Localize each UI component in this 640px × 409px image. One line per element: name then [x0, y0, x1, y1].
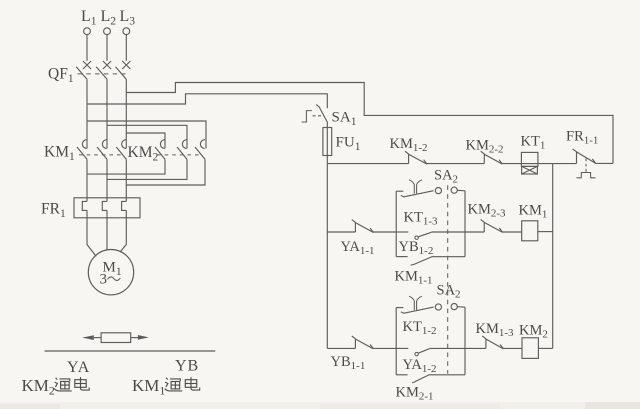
- wire L1 drop to QF1: [86, 35, 88, 61]
- time relay KT1 lower crossed box: [522, 166, 538, 174]
- branch box2 left bus: [395, 308, 397, 375]
- contact KM1-3: [482, 336, 503, 349]
- time relay KT1 coil upper box: [521, 152, 538, 166]
- breaker QF1 pole 3 contact cross: [122, 61, 130, 69]
- contact KT1-3 / YB1-2 in box1: [396, 231, 408, 233]
- switch SA1 operator: [302, 111, 312, 122]
- contact FR1-1 thermal overload: [573, 149, 596, 163]
- branch box1 left bus: [395, 191, 397, 256]
- wire phase3 KM1 to motor: [120, 159, 126, 251]
- wire phase1 vertical QF1 to KM1: [86, 79, 88, 148]
- contact KM2-1 in box2 bottom edge: [396, 374, 407, 376]
- wire phase2 vertical QF1 to KM1: [106, 79, 108, 148]
- switch SA2 pole 1 manual operator: [409, 180, 422, 194]
- wire rung1 through KT1: [523, 163, 577, 165]
- selector SA2 linkage dashed column: [447, 185, 449, 373]
- switch SA2 pole 2 manual operator: [409, 296, 422, 310]
- wire KM2 pole C output to phase3: [126, 159, 205, 185]
- scan artifact bottom band: [0, 402, 640, 409]
- switch SA1 blade: [316, 105, 328, 123]
- contactor KM1 linkage dashes: [79, 154, 125, 156]
- node L1 terminal: [84, 28, 91, 35]
- wire L3 drop to QF1: [125, 35, 127, 61]
- thermal relay FR1 heater 2: [102, 201, 107, 210]
- wire rung2 to KM2-3: [465, 231, 484, 233]
- wire rung3 to KM1-3: [465, 347, 486, 349]
- breaker QF1 pole 2 blade: [96, 67, 107, 79]
- contact KM1-1 in box1 bottom edge: [396, 256, 407, 258]
- node L3 terminal: [123, 28, 130, 35]
- contact KM2-3: [481, 219, 503, 232]
- fuse FU1: [323, 128, 332, 156]
- node L2 terminal: [104, 28, 111, 35]
- contactor KM1 pole 1: [77, 140, 87, 160]
- thermal relay FR1 heater 3: [122, 201, 127, 210]
- coil KM1: [503, 231, 522, 233]
- wire rung1 segment: [427, 163, 484, 165]
- wire phase3 vertical QF1 to KM1: [125, 79, 127, 148]
- breaker QF1 pole 3 blade: [116, 67, 127, 79]
- breaker QF1 pole 2 contact cross: [103, 61, 111, 69]
- motor M1 circle: [88, 250, 133, 295]
- wire rung2 to branch box 1: [373, 231, 396, 233]
- FR1-1 thermal element symbol: [577, 173, 596, 178]
- wire control feed tap from phase1 to SA1: [87, 94, 327, 108]
- wire phase1 feed to KM2 pole C: [87, 121, 206, 148]
- wire control rung 1: [327, 163, 408, 165]
- wire rung3 to branch box2: [373, 347, 396, 349]
- wire KM1 coil to return rail: [538, 231, 553, 233]
- contact KT1-2 / YA1-2 in box2: [396, 347, 408, 349]
- contact KM1-2: [405, 151, 427, 164]
- contact KM2-2: [481, 151, 503, 164]
- wire FR1-1 to right rail: [596, 162, 614, 164]
- contactor KM2 pole C: [195, 140, 205, 160]
- wire left rail: [326, 164, 328, 349]
- thermal relay FR1 heater 1: [82, 201, 87, 210]
- svg-text:YA: YA: [67, 359, 90, 376]
- svg-text:YB: YB: [175, 358, 199, 375]
- contactor KM2 pole B: [177, 140, 187, 160]
- breaker QF1 linkage dashes: [78, 73, 126, 75]
- FR1-1 heater dashes: [585, 159, 587, 173]
- contactor KM2 pole A: [155, 140, 165, 160]
- contact YB1-1: [352, 336, 374, 349]
- svg-text:3: 3: [100, 272, 108, 288]
- wire rung2 from left rail: [327, 231, 355, 233]
- breaker QF1 pole 1 contact cross: [83, 61, 91, 69]
- wire phase1 KM1 to motor: [87, 159, 96, 256]
- contact YA1-1: [352, 220, 374, 233]
- switch SA1 linkage dashes: [313, 115, 322, 117]
- contactor KM1 pole 2: [97, 140, 107, 160]
- breaker QF1 pole 1 blade: [76, 67, 87, 79]
- branch box2 right bus: [464, 307, 466, 375]
- actuator double arrow symbol: [82, 335, 94, 340]
- wire rung3 from left rail: [327, 347, 355, 349]
- contactor KM1 pole 3: [116, 140, 126, 160]
- wire KM2 pole B output to phase2: [107, 159, 187, 179]
- thermal relay FR1 body: [74, 198, 140, 218]
- wire phase3 feed to KM2 pole A: [126, 133, 165, 148]
- branch box1 right bus: [464, 191, 466, 257]
- switch SA2 pole 1 on box1 top: [396, 190, 403, 192]
- wire L2 drop to QF1: [106, 35, 108, 61]
- wire rung1 segment to KT1: [502, 163, 522, 165]
- baseline under actuator: [45, 350, 216, 352]
- wire phase2 KM1 to motor: [106, 159, 108, 250]
- wire KM2 pole A output to phase1: [87, 159, 165, 174]
- wire phase2 feed to KM2 pole B: [107, 125, 187, 148]
- coil KM2: [503, 347, 522, 349]
- contactor KM2 linkage dashes: [157, 154, 203, 156]
- wire return rail: [552, 164, 554, 349]
- switch SA2 pole 2 on box2 top: [396, 307, 403, 309]
- wire KM2 coil to return rail: [538, 347, 552, 349]
- wire control supply tap from phase3 to right rail: [126, 83, 613, 164]
